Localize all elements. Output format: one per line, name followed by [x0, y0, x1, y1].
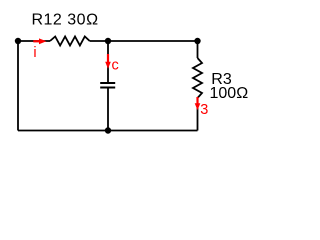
node dot capacitor top junction: [105, 38, 111, 44]
current arrow c on capacitor lead: [105, 54, 111, 69]
resistor R12 zigzag: [50, 37, 90, 46]
current arrow 3 below R3: [195, 97, 201, 110]
wire: capacitor bottom lead: [107, 88, 109, 131]
wire: left vertical branch: [17, 41, 19, 131]
svg-text:3: 3: [200, 102, 208, 118]
svg-text:R12 30Ω: R12 30Ω: [31, 12, 98, 29]
wire: top-left segment before R12: [18, 40, 50, 42]
wire: bottom net: [18, 130, 198, 132]
capacitor bottom plate: [100, 87, 115, 89]
wire: top segment from R12 to right node: [90, 40, 198, 42]
wire: right vertical below R3: [197, 98, 199, 131]
svg-text:i: i: [33, 45, 36, 61]
node dot top-right: [194, 38, 200, 44]
svg-text:100Ω: 100Ω: [210, 85, 249, 102]
wire: right vertical above R3: [197, 41, 199, 58]
svg-text:c: c: [112, 58, 119, 74]
capacitor top plate: [100, 82, 115, 84]
node dot top-left: [15, 38, 21, 44]
node dot capacitor bottom junction: [105, 127, 111, 133]
current arrow i on top wire: [33, 38, 46, 44]
resistor R3 zigzag: [193, 58, 202, 98]
wire: capacitor top lead: [107, 41, 109, 83]
